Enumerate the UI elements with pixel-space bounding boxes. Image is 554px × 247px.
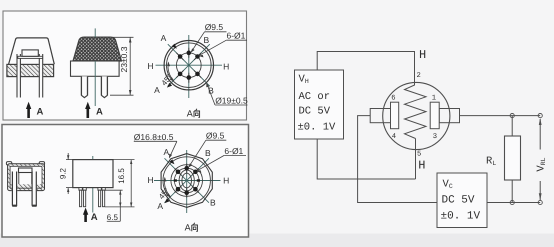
can interior xyxy=(10,166,42,184)
svg-text:A: A xyxy=(187,109,193,119)
dimension 6.5 (pin length) xyxy=(105,189,123,191)
svg-text:A: A xyxy=(163,147,169,157)
wire RL top xyxy=(511,116,513,136)
svg-text:B: B xyxy=(205,148,211,158)
wire RL bottom xyxy=(511,180,513,203)
section arrow bottom-left xyxy=(167,83,172,88)
diagonal A-A centerline 135deg (teal) xyxy=(168,44,210,86)
svg-text:H: H xyxy=(223,176,229,186)
svg-text:H: H xyxy=(418,159,425,173)
wire VC right to RL bottom xyxy=(487,202,540,204)
inner rim circle xyxy=(167,43,212,88)
VRL measuring line with arrows xyxy=(539,119,541,150)
power box VC xyxy=(437,173,487,228)
power box VH xyxy=(295,70,344,139)
feedthrough stub right xyxy=(439,109,459,123)
svg-text:A: A xyxy=(91,212,98,223)
element ellipse inner xyxy=(182,173,192,188)
can body inner wall xyxy=(10,166,42,188)
svg-text:1: 1 xyxy=(432,95,436,103)
svg-text:DC 5V: DC 5V xyxy=(299,106,331,118)
electrode tab left xyxy=(174,179,177,181)
view arrow A (view1) xyxy=(27,107,30,118)
svg-text:±0. 1V: ±0. 1V xyxy=(441,211,481,223)
svg-text:6: 6 xyxy=(391,95,395,103)
svg-text:A: A xyxy=(154,85,160,95)
outer decagon D16.8 xyxy=(161,154,212,208)
base plate (hatched) xyxy=(7,64,54,76)
clip hook right xyxy=(39,162,44,165)
feedthrough stub left xyxy=(370,109,390,123)
element cap rect xyxy=(19,168,33,173)
svg-text:9.2: 9.2 xyxy=(58,167,67,179)
svg-text:B: B xyxy=(210,198,216,208)
pin dot 225 xyxy=(176,187,181,192)
svg-text:16.5: 16.5 xyxy=(117,168,126,184)
diagonal B-B centerline 45deg (teal) xyxy=(168,44,210,86)
element ellipse outer xyxy=(179,170,194,191)
pin radial ticks xyxy=(175,164,199,198)
svg-text:5: 5 xyxy=(417,151,421,159)
pin dot 225 xyxy=(178,72,183,77)
pin P2 (white channel) xyxy=(39,54,43,98)
pin P1 (white channel) xyxy=(17,54,21,98)
pin dot 270 xyxy=(187,75,192,80)
horizontal centerline H-H (teal) xyxy=(154,180,221,182)
node top-left xyxy=(510,114,514,118)
electrode tab right xyxy=(197,179,200,181)
svg-text:±0. 1V: ±0. 1V xyxy=(298,122,337,134)
pin radial ticks xyxy=(176,48,201,83)
heater zigzag xyxy=(405,83,427,139)
electrode bar right xyxy=(430,102,439,129)
45deg arc arrow xyxy=(168,63,174,81)
section arrow top-left xyxy=(169,159,174,164)
clip hook left xyxy=(6,162,11,165)
section arrow bottom-left xyxy=(164,198,169,203)
sensor MQ top-view-1 dome outline xyxy=(9,38,55,64)
pin dot 90 xyxy=(187,51,192,56)
pin circle D9.5 xyxy=(176,53,201,78)
resistor RL xyxy=(505,136,521,180)
45deg arc arrow xyxy=(164,178,170,197)
diagonal B-B centerline (teal) xyxy=(165,158,209,202)
bottom panel frame xyxy=(2,125,249,238)
wire VH top to heater pin 2 xyxy=(317,52,414,83)
view arrow A (bottom) xyxy=(84,213,87,222)
pin P10 with shoulder xyxy=(102,188,105,207)
svg-text:3: 3 xyxy=(433,133,437,141)
vertical centerline (teal) xyxy=(188,35,190,98)
svg-text:H: H xyxy=(147,61,153,71)
svg-text:Ø16.8±0.5: Ø16.8±0.5 xyxy=(134,132,174,142)
outer circle D19 xyxy=(164,40,213,89)
pin dot 45 xyxy=(195,54,200,59)
dimension 23±0.3 line xyxy=(129,37,131,95)
svg-text:H: H xyxy=(419,48,426,62)
pin dot 135 xyxy=(176,170,181,175)
svg-text:23±0.3: 23±0.3 xyxy=(119,46,129,72)
svg-text:DC 5V: DC 5V xyxy=(442,195,475,207)
can body outer (hatched walls) xyxy=(8,164,45,191)
svg-text:A: A xyxy=(96,106,103,117)
top panel frame xyxy=(3,11,247,120)
dimension 9.2 xyxy=(66,159,73,161)
svg-text:H: H xyxy=(148,175,154,185)
pin dot 135 xyxy=(178,54,183,59)
vertical centerline (teal) xyxy=(186,150,188,213)
pin dot 270 xyxy=(184,191,189,196)
pin P4 xyxy=(101,76,108,95)
pin dot 315 xyxy=(193,187,198,192)
svg-text:B: B xyxy=(203,35,209,45)
dimension 16.5 xyxy=(113,159,135,161)
svg-text:AC or: AC or xyxy=(299,91,331,103)
body rect side view xyxy=(73,160,113,188)
centerline (teal) xyxy=(92,156,94,213)
bottom gray band xyxy=(0,234,554,247)
node bottom-left xyxy=(510,200,514,204)
pin P3 xyxy=(81,76,88,95)
element base step xyxy=(18,56,43,58)
svg-text:Ø19±0.5: Ø19±0.5 xyxy=(215,96,248,106)
svg-text:4: 4 xyxy=(392,133,396,141)
svg-text:2: 2 xyxy=(417,72,421,80)
electrode bar left xyxy=(391,102,399,129)
svg-text:Ø9.5: Ø9.5 xyxy=(206,130,225,140)
svg-text:6-Ø1: 6-Ø1 xyxy=(227,31,246,41)
svg-text:A: A xyxy=(157,201,163,211)
mesh dome (side view) xyxy=(73,37,122,61)
svg-text:A: A xyxy=(37,107,44,118)
diagonal A-A centerline (teal) xyxy=(165,158,209,202)
horizontal centerline H-H (teal) xyxy=(156,64,223,66)
pin dot 45 xyxy=(193,170,198,175)
inner rim circle xyxy=(163,157,210,204)
sensor U1 circle xyxy=(383,82,450,149)
node bottom-right xyxy=(538,200,542,204)
pin P8 with shoulder xyxy=(83,188,86,207)
pin P6 (white channel) xyxy=(32,172,37,207)
dimension 23±0.3 extension lines xyxy=(113,36,134,38)
pin P9 with shoulder xyxy=(98,188,101,207)
pin dot 315 xyxy=(195,72,200,77)
pin dot 90 xyxy=(184,166,189,171)
svg-text:6.5: 6.5 xyxy=(107,213,119,222)
pin P5 (white channel) xyxy=(12,172,17,207)
wire VH bottom return xyxy=(317,139,415,179)
mid circle xyxy=(171,165,203,197)
wire electrode left to VC xyxy=(358,116,437,203)
svg-text:H: H xyxy=(223,62,229,72)
pin circle D9.5 xyxy=(174,168,199,193)
svg-text:Ø9.5: Ø9.5 xyxy=(205,22,224,32)
wire heater bottom pin 5 xyxy=(415,139,417,180)
view arrow A (view2) xyxy=(87,107,90,118)
node top-right xyxy=(538,114,542,118)
element cap rect xyxy=(22,50,38,56)
wire electrode right to RL xyxy=(460,115,541,117)
svg-text:A: A xyxy=(185,223,191,233)
svg-text:A: A xyxy=(161,33,167,43)
centerline (teal) xyxy=(94,28,96,37)
svg-text:6-Ø1: 6-Ø1 xyxy=(224,146,243,156)
section arrow top-left xyxy=(172,44,177,49)
flange base xyxy=(71,61,120,76)
pin P7 with shoulder xyxy=(79,188,82,207)
element body sides xyxy=(18,172,20,184)
